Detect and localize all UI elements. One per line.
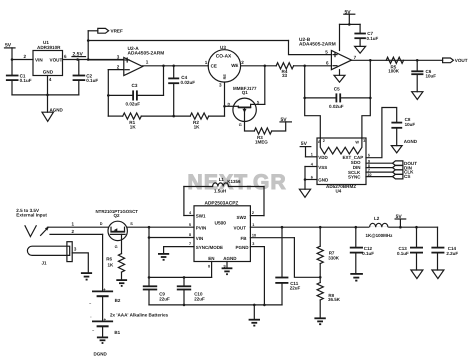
svg-text:8: 8 bbox=[208, 264, 210, 268]
svg-text:0.1uF: 0.1uF bbox=[20, 78, 32, 83]
svg-text:10uF: 10uF bbox=[405, 122, 416, 127]
svg-text:1: 1 bbox=[311, 153, 313, 157]
svg-text:C5: C5 bbox=[334, 87, 340, 92]
svg-text:3: 3 bbox=[219, 82, 222, 87]
svg-text:1: 1 bbox=[146, 60, 149, 65]
svg-text:1K: 1K bbox=[108, 262, 115, 267]
svg-text:10uF: 10uF bbox=[426, 73, 437, 78]
svg-text:1K@100MHz: 1K@100MHz bbox=[366, 233, 394, 238]
svg-text:C3: C3 bbox=[132, 83, 138, 88]
svg-text:10: 10 bbox=[367, 173, 371, 177]
svg-text:5: 5 bbox=[325, 50, 328, 55]
svg-text:ADR3910R: ADR3910R bbox=[37, 45, 61, 50]
svg-text:3: 3 bbox=[363, 139, 365, 143]
svg-text:D: D bbox=[228, 102, 231, 106]
svg-text:VREF: VREF bbox=[111, 29, 123, 34]
svg-text:33: 33 bbox=[282, 73, 288, 78]
svg-text:G: G bbox=[239, 123, 242, 127]
svg-text:CS: CS bbox=[404, 174, 410, 179]
svg-text:3: 3 bbox=[252, 242, 254, 246]
svg-text:1K: 1K bbox=[194, 124, 201, 129]
svg-text:SW1: SW1 bbox=[196, 214, 206, 219]
svg-text:2: 2 bbox=[241, 60, 244, 65]
svg-text:U500: U500 bbox=[215, 221, 227, 227]
svg-text:EN: EN bbox=[208, 256, 214, 261]
svg-text:SW2: SW2 bbox=[237, 215, 247, 220]
svg-text:SYNC: SYNC bbox=[348, 175, 361, 180]
svg-text:Q2: Q2 bbox=[114, 213, 121, 218]
svg-text:FB: FB bbox=[241, 236, 248, 241]
svg-text:0.02uF: 0.02uF bbox=[126, 102, 141, 107]
svg-text:8: 8 bbox=[368, 164, 370, 168]
svg-text:5V: 5V bbox=[301, 141, 308, 147]
svg-text:J1: J1 bbox=[42, 261, 48, 266]
svg-text:2: 2 bbox=[252, 211, 254, 215]
svg-text:2: 2 bbox=[117, 64, 120, 69]
svg-text:VIN: VIN bbox=[196, 236, 204, 241]
svg-text:2.2uF: 2.2uF bbox=[446, 251, 458, 256]
svg-text:L1: L1 bbox=[219, 177, 225, 182]
svg-text:U4: U4 bbox=[336, 188, 342, 193]
svg-text:6: 6 bbox=[64, 54, 67, 59]
svg-text:1.5uH: 1.5uH bbox=[214, 189, 226, 194]
svg-text:6: 6 bbox=[311, 175, 313, 179]
svg-text:3: 3 bbox=[117, 55, 120, 60]
svg-text:36.5K: 36.5K bbox=[328, 297, 341, 302]
svg-text:22uF: 22uF bbox=[194, 296, 205, 301]
svg-text:2: 2 bbox=[24, 54, 27, 59]
svg-text:22uF: 22uF bbox=[159, 296, 170, 301]
svg-text:4: 4 bbox=[49, 77, 52, 82]
svg-text:8: 8 bbox=[189, 233, 191, 237]
svg-text:VSS: VSS bbox=[318, 165, 327, 170]
svg-text:0.1uF: 0.1uF bbox=[362, 251, 374, 256]
svg-text:VDD: VDD bbox=[318, 155, 328, 160]
svg-text:ADA4505-2ARM: ADA4505-2ARM bbox=[299, 42, 336, 48]
svg-text:Q1: Q1 bbox=[242, 90, 249, 95]
svg-text:AGND: AGND bbox=[223, 256, 237, 261]
svg-text:1MEG: 1MEG bbox=[255, 139, 268, 144]
svg-text:B1: B1 bbox=[114, 330, 120, 335]
svg-text:1: 1 bbox=[252, 223, 254, 227]
svg-text:GND: GND bbox=[43, 70, 54, 75]
svg-text:5V: 5V bbox=[281, 117, 288, 123]
svg-text:GND: GND bbox=[318, 178, 329, 183]
svg-text:1K: 1K bbox=[130, 124, 137, 129]
svg-text:WE: WE bbox=[231, 63, 238, 68]
svg-text:ADA4505-2ARM: ADA4505-2ARM bbox=[128, 50, 165, 56]
svg-text:9: 9 bbox=[368, 159, 370, 163]
svg-text:0.02uF: 0.02uF bbox=[329, 104, 344, 109]
svg-text:0.02uF: 0.02uF bbox=[181, 80, 196, 85]
svg-text:External Input: External Input bbox=[16, 213, 47, 218]
svg-text:B2: B2 bbox=[115, 298, 121, 303]
svg-text:L2: L2 bbox=[374, 216, 380, 221]
svg-text:5V: 5V bbox=[345, 9, 352, 15]
svg-text:5V: 5V bbox=[396, 214, 403, 220]
svg-text:CO-AX: CO-AX bbox=[216, 54, 232, 60]
svg-text:2: 2 bbox=[323, 139, 325, 143]
svg-text:SYNC/MODE: SYNC/MODE bbox=[196, 245, 223, 250]
svg-text:PVIN: PVIN bbox=[196, 226, 207, 231]
svg-text:VOUT: VOUT bbox=[234, 226, 247, 231]
svg-text:330K: 330K bbox=[328, 255, 340, 260]
svg-text:5: 5 bbox=[368, 153, 370, 157]
svg-text:RE: RE bbox=[223, 74, 227, 80]
svg-text:CE: CE bbox=[211, 63, 217, 68]
svg-text:100K: 100K bbox=[388, 69, 400, 74]
svg-text:10: 10 bbox=[252, 233, 256, 237]
svg-text:1: 1 bbox=[205, 60, 208, 65]
svg-text:7: 7 bbox=[354, 55, 357, 60]
svg-text:22uF: 22uF bbox=[290, 286, 301, 291]
svg-text:K1356: K1356 bbox=[227, 179, 241, 184]
svg-text:ADP2503ACPZ: ADP2503ACPZ bbox=[205, 201, 239, 207]
svg-text:AGND: AGND bbox=[404, 139, 418, 144]
svg-text:VIN: VIN bbox=[35, 58, 43, 63]
svg-text:0.1uF: 0.1uF bbox=[86, 78, 98, 83]
svg-text:S: S bbox=[130, 222, 133, 226]
svg-text:5: 5 bbox=[189, 223, 191, 227]
svg-text:W: W bbox=[355, 140, 359, 144]
svg-text:U3: U3 bbox=[220, 45, 226, 50]
svg-text:VOUT: VOUT bbox=[455, 58, 468, 63]
svg-text:D: D bbox=[100, 222, 103, 226]
svg-text:6: 6 bbox=[326, 61, 329, 66]
svg-text:G: G bbox=[115, 245, 118, 249]
svg-text:R6: R6 bbox=[106, 257, 112, 262]
svg-text:PGND: PGND bbox=[236, 245, 250, 250]
svg-text:2x 'AAA' Alkaline Batteries: 2x 'AAA' Alkaline Batteries bbox=[110, 312, 169, 317]
svg-text:DGND: DGND bbox=[94, 351, 108, 356]
svg-text:VOUT: VOUT bbox=[50, 58, 63, 63]
svg-text:0.1uF: 0.1uF bbox=[397, 251, 409, 256]
svg-text:0.1uF: 0.1uF bbox=[367, 36, 379, 41]
svg-text:7: 7 bbox=[368, 168, 370, 172]
svg-text:7: 7 bbox=[189, 242, 191, 246]
